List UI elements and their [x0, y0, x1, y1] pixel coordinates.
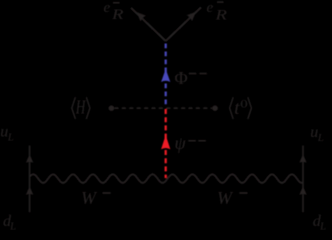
svg-text:W: W	[217, 188, 234, 208]
svg-text:R: R	[214, 6, 227, 23]
svg-text:W: W	[81, 188, 98, 208]
svg-text:R: R	[111, 6, 124, 23]
svg-text:L: L	[7, 132, 14, 144]
svg-text:0: 0	[240, 97, 248, 110]
svg-text:L: L	[319, 221, 326, 232]
svg-text:e: e	[207, 0, 214, 16]
svg-text:H: H	[75, 97, 86, 119]
svg-text:L: L	[317, 132, 324, 144]
svg-text:e: e	[104, 0, 111, 16]
svg-text:ψ: ψ	[175, 133, 187, 153]
svg-text:L: L	[9, 221, 16, 232]
svg-text:Φ: Φ	[175, 68, 188, 88]
